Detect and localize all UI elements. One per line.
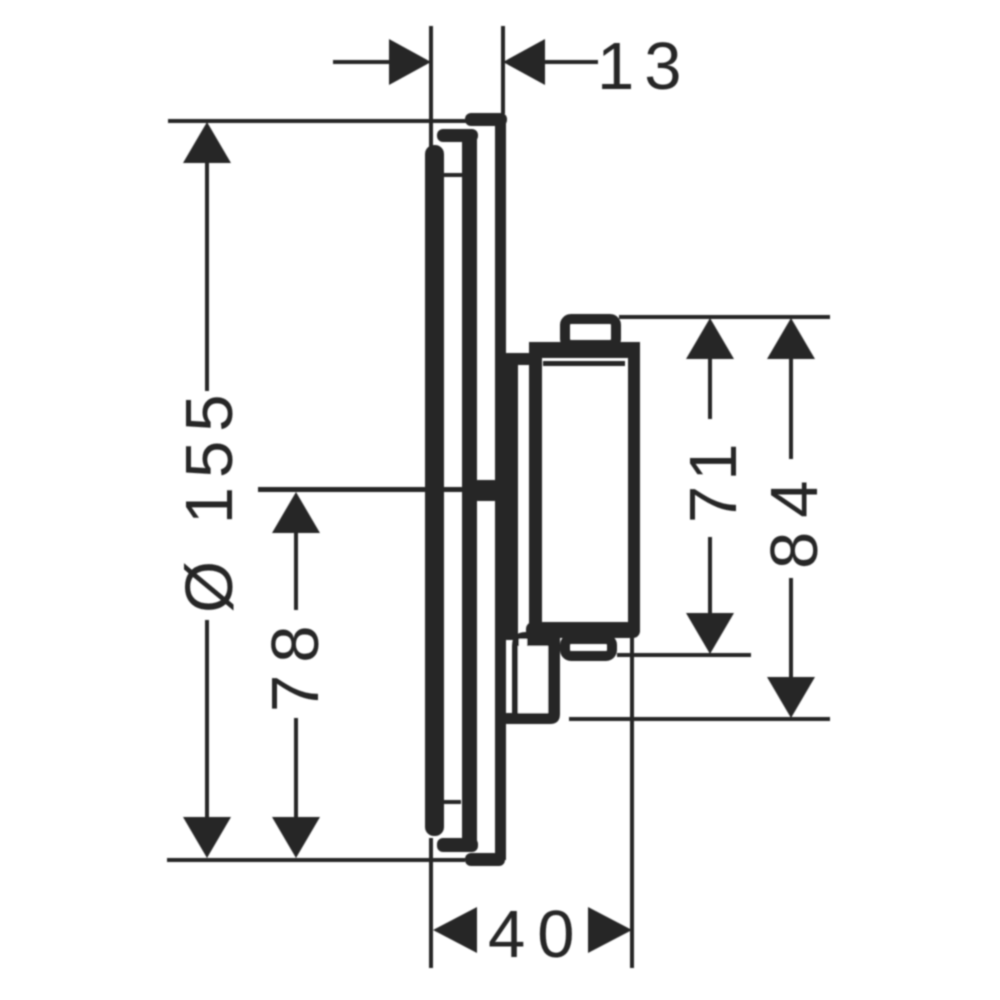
svg-text:40: 40 bbox=[488, 897, 587, 972]
svg-text:84: 84 bbox=[757, 466, 832, 569]
svg-text:13: 13 bbox=[597, 29, 692, 104]
svg-text:Ø 155: Ø 155 bbox=[172, 385, 247, 613]
svg-text:71: 71 bbox=[676, 438, 751, 523]
svg-text:78: 78 bbox=[258, 613, 333, 712]
